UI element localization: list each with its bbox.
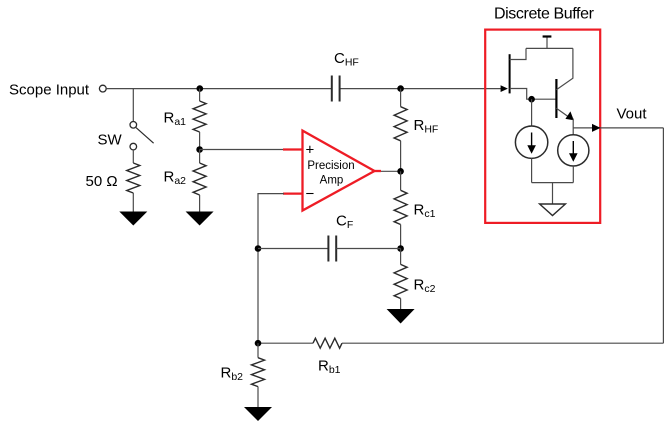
svg-text:Ra1: Ra1: [164, 109, 187, 128]
wire opamp output: [381, 170, 401, 172]
svg-text:Rb2: Rb2: [221, 364, 244, 383]
ground (Rb2): [244, 407, 272, 421]
wire top rail right of CHF: [340, 88, 502, 90]
ground (Ra2): [186, 212, 214, 226]
svg-text:CF: CF: [336, 213, 353, 232]
wire 50ohm to ground: [132, 193, 134, 212]
capacitor CF: [327, 236, 329, 262]
wire CF right: [336, 248, 400, 250]
ground (Rc2): [387, 309, 415, 324]
JFET source lead: [510, 89, 557, 100]
wire to Rc2: [400, 249, 402, 265]
svg-text:Ra2: Ra2: [164, 168, 187, 187]
wire to Rc1: [400, 171, 402, 190]
wire emitter output to Vout: [573, 127, 663, 129]
node junction top/Ra1: [197, 85, 204, 92]
svg-text:Scope Input: Scope Input: [9, 82, 90, 99]
op-amp U1 Precision Amp: [283, 131, 381, 211]
transistor Q2 BJT base bar: [555, 79, 557, 118]
wire -input feedback: [258, 194, 284, 344]
wire RHF to out node: [400, 141, 402, 172]
svg-text:Rc1: Rc1: [414, 202, 436, 221]
ground (50 ohm): [119, 212, 147, 226]
wire top rail left of CHF: [106, 88, 331, 90]
wire feedback bottom right: [342, 342, 663, 344]
discrete buffer red box: [485, 30, 600, 223]
JFET drain lead: [510, 48, 526, 59]
current source I1: [515, 126, 547, 158]
wire bottom rail of buffer: [532, 182, 574, 184]
svg-text:Precision: Precision: [307, 160, 354, 172]
resistor RHF: [394, 107, 407, 141]
node RHF/Rc1/output junction: [397, 168, 404, 175]
svg-text:Vout: Vout: [617, 106, 648, 123]
wire node to +input: [200, 149, 284, 151]
svg-text:Rc2: Rc2: [414, 277, 436, 296]
node Rb2/Rb1 junction: [255, 340, 262, 347]
wire CF left: [258, 248, 328, 250]
wire Ra2 top: [199, 150, 201, 164]
wire to Ra1: [199, 89, 201, 101]
svg-text:−: −: [306, 186, 315, 203]
BJT emitter: [556, 108, 570, 118]
wire Rb2 to ground: [257, 387, 259, 408]
ground (buffer, open): [540, 204, 566, 216]
wire right feedback vertical: [662, 128, 664, 343]
wire Rc1 to CF node: [400, 225, 402, 249]
BJT collector: [556, 48, 573, 89]
wire Ra2 to ground: [199, 195, 201, 212]
wire top rail of buffer: [526, 47, 573, 49]
svg-text:+: +: [306, 141, 315, 158]
node source/base/current-source junction: [528, 96, 535, 103]
capacitor CHF: [331, 76, 333, 102]
wire switch drop: [132, 89, 134, 122]
switch SW: [130, 122, 137, 129]
wire switch to 50ohm: [132, 150, 134, 163]
svg-text:Discrete Buffer: Discrete Buffer: [494, 5, 595, 22]
svg-text:Rb1: Rb1: [318, 357, 341, 376]
svg-text:Amp: Amp: [320, 175, 344, 187]
resistor Rb1: [313, 338, 342, 348]
node Ra1/Ra2/+in junction: [196, 146, 203, 153]
current source I2: [558, 135, 589, 166]
power supply stub: [546, 37, 548, 49]
resistor Ra1: [193, 101, 206, 132]
resistor Rc1: [394, 190, 407, 224]
resistor Ra2: [193, 163, 206, 195]
wire Rb2 top: [257, 343, 259, 358]
svg-text:50 Ω: 50 Ω: [86, 173, 118, 190]
wire Ra1 to node: [199, 132, 201, 150]
emitter arrowhead: [565, 111, 573, 120]
wire right CS to rail: [572, 166, 574, 183]
svg-text:SW: SW: [98, 131, 123, 148]
resistor Rb2: [252, 358, 265, 387]
transistor Q1 JFET channel: [509, 54, 511, 93]
resistor Rc2: [394, 264, 407, 298]
scope input terminal: [99, 85, 106, 92]
wire left CS to rail: [531, 158, 533, 182]
resistor 50 ohm: [127, 163, 140, 193]
wire Rc2 to ground: [400, 299, 402, 310]
svg-text:CHF: CHF: [334, 50, 359, 69]
node Rc1/Rc2/CF junction: [397, 245, 404, 252]
node CF left junction: [255, 245, 262, 252]
wire CHF node down: [400, 89, 402, 107]
node CHF/RHF junction: [397, 85, 404, 92]
output arrowhead: [592, 124, 601, 132]
JFET gate arrowhead: [501, 85, 508, 92]
svg-text:RHF: RHF: [414, 117, 439, 136]
wire ground stem: [552, 183, 554, 204]
wire to left current source: [531, 99, 533, 126]
wire emitter to output node: [572, 119, 574, 135]
wire feedback bottom left: [258, 342, 313, 344]
